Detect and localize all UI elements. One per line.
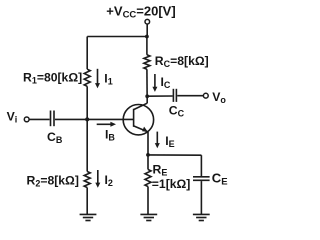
svg-text:CB: CB bbox=[47, 130, 63, 145]
svg-text:IE: IE bbox=[165, 134, 174, 149]
svg-text:I1: I1 bbox=[104, 72, 112, 87]
svg-text:CE: CE bbox=[212, 170, 228, 187]
svg-text:R1=80[kΩ]: R1=80[kΩ] bbox=[23, 70, 82, 85]
svg-text:IB: IB bbox=[105, 128, 115, 143]
svg-text:=1[kΩ]: =1[kΩ] bbox=[152, 177, 191, 191]
svg-text:CC: CC bbox=[169, 104, 185, 119]
svg-text:IC: IC bbox=[161, 75, 171, 90]
svg-text:RC=8[kΩ]: RC=8[kΩ] bbox=[155, 54, 209, 69]
svg-text:I2: I2 bbox=[105, 173, 113, 188]
svg-text:RE: RE bbox=[153, 163, 168, 178]
svg-text:R2=8[kΩ]: R2=8[kΩ] bbox=[27, 173, 79, 188]
svg-text:Vo: Vo bbox=[212, 90, 226, 105]
svg-text:+VCC=20[V]: +VCC=20[V] bbox=[106, 3, 175, 20]
svg-text:Vi: Vi bbox=[7, 110, 18, 125]
